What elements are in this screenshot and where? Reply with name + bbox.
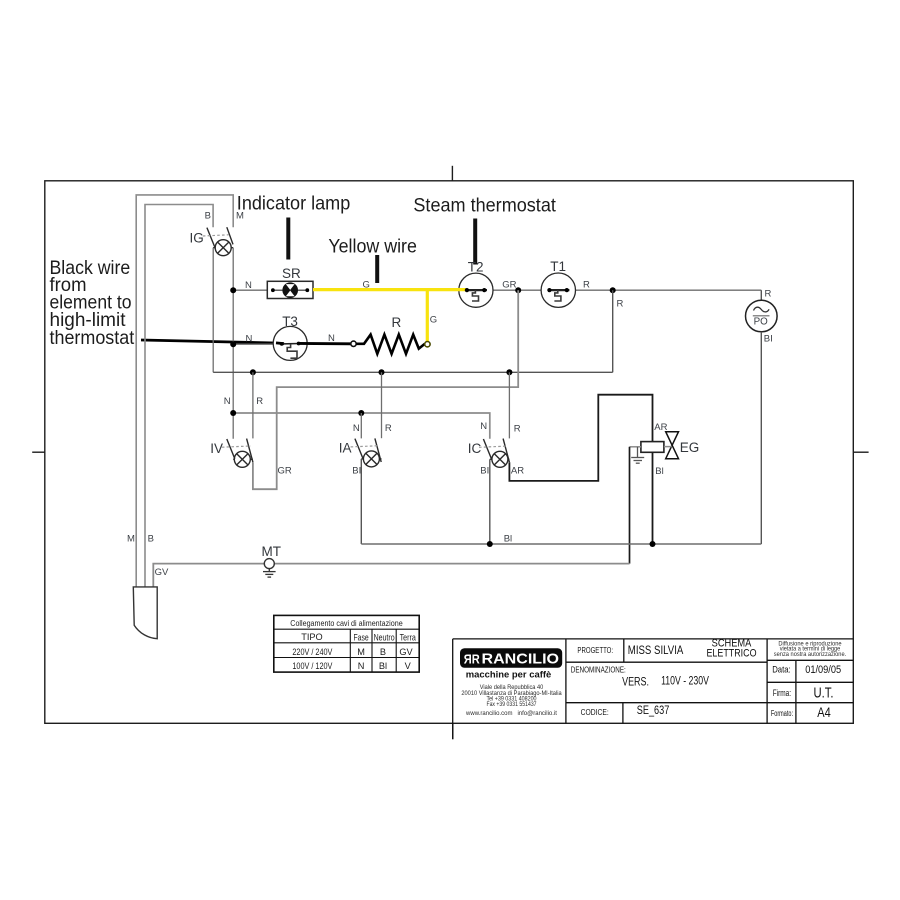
terminal: element left (open circle) <box>351 341 356 346</box>
svg-text:EG: EG <box>680 440 700 455</box>
svg-text:M: M <box>236 211 244 222</box>
wire: phase pole below IG down to lower feed row <box>212 248 214 373</box>
svg-text:N: N <box>358 661 365 671</box>
svg-text:A4: A4 <box>817 705 831 720</box>
annotation pointer to T2 <box>473 219 477 265</box>
svg-text:Fax +39 0331 551437: Fax +39 0331 551437 <box>486 701 536 708</box>
svg-text:SR: SR <box>282 266 301 281</box>
address lines <box>461 684 562 717</box>
annotation leader line: black wire from element to high-limit thermostat <box>141 340 276 343</box>
earth terminal MT <box>263 559 276 578</box>
ground symbol at EG coil <box>631 447 644 463</box>
svg-text:Collegamento cavi di alimentaz: Collegamento cavi di alimentazione <box>290 618 403 628</box>
svg-text:Terra: Terra <box>400 633 417 643</box>
node: N row / IA junction <box>358 410 364 416</box>
svg-text:SE_637: SE_637 <box>637 703 670 717</box>
wire: EG coil ground lead <box>630 446 641 448</box>
svg-text:T3: T3 <box>282 314 298 329</box>
supply cable table <box>274 615 419 672</box>
thermostat T1 (coffee) <box>541 273 575 307</box>
svg-text:VERS.: VERS. <box>622 674 649 688</box>
wire: IV R pin from feed row <box>252 372 254 438</box>
svg-text:M: M <box>357 647 365 657</box>
node: BI row / EG junction <box>650 541 656 547</box>
node: N / T3 junction <box>230 341 236 347</box>
svg-text:GV: GV <box>155 567 169 578</box>
svg-text:R: R <box>514 424 521 435</box>
svg-text:M: M <box>127 534 135 545</box>
svg-text:Yellow wire: Yellow wire <box>328 236 417 258</box>
drawing frame border (not labeled content) <box>32 166 868 739</box>
annotation pointer to yellow wire <box>375 255 379 283</box>
svg-text:BI: BI <box>764 334 773 345</box>
wire: N feed to SR <box>233 289 268 291</box>
terminal: element right (yellow wire end, open circle) <box>425 342 430 347</box>
svg-text:Bl: Bl <box>655 466 663 477</box>
svg-text:R: R <box>392 315 402 330</box>
svg-text:GR: GR <box>278 465 292 476</box>
node: T1out / pump-row junction <box>610 287 616 293</box>
wire: grey GR loop T2 to IV lamp <box>253 290 518 489</box>
wire: IA lamp down to BI row <box>360 459 362 544</box>
svg-text:100V / 120V: 100V / 120V <box>292 661 333 671</box>
wire: N pole below IG down to IV <box>232 248 234 439</box>
svg-text:GR: GR <box>502 279 516 290</box>
wire: mains M loop top (outer) <box>136 195 233 587</box>
T1 contact bar, pins and bimetal glyph <box>548 290 569 301</box>
wire: thick black T3 to element terminal <box>298 342 352 345</box>
title block <box>453 639 854 739</box>
annotation text: Black wire from element to high-limit thermostat <box>50 257 135 349</box>
svg-text:Bl: Bl <box>379 661 387 671</box>
svg-text:B: B <box>380 647 386 657</box>
wire: main row from T2 to PO (grey, behind thermostat circles) <box>464 289 761 291</box>
svg-text:GV: GV <box>399 647 413 657</box>
svg-text:AR: AR <box>511 465 524 476</box>
wire: PO down to BI row <box>760 332 762 544</box>
svg-text:Data:: Data: <box>772 665 791 675</box>
svg-text:PROGETTO:: PROGETTO: <box>577 646 613 655</box>
svg-text:R: R <box>617 299 624 310</box>
svg-text:BI: BI <box>480 465 489 476</box>
svg-text:Firma:: Firma: <box>773 688 791 698</box>
svg-text:T2: T2 <box>468 260 484 275</box>
svg-text:Steam thermostat: Steam thermostat <box>413 195 556 217</box>
svg-text:DENOMINAZIONE:: DENOMINAZIONE: <box>571 666 626 675</box>
wire: yellow wire SR to T2 with branch to element <box>313 290 466 342</box>
svg-text:Fase: Fase <box>354 633 369 643</box>
svg-text:N: N <box>224 396 231 407</box>
node: lower feed / IC R junction <box>506 369 512 375</box>
svg-text:ЯR: ЯR <box>464 652 480 667</box>
svg-text:www.rancilio.com info@rancil: www.rancilio.com info@rancilio.it <box>465 710 557 717</box>
wire: N down-feed to T3 (thin, under thick black) <box>233 343 278 345</box>
svg-text:PO: PO <box>754 316 769 327</box>
node: N row / IV junction <box>230 410 236 416</box>
svg-text:R: R <box>583 279 590 290</box>
svg-text:N: N <box>328 333 335 344</box>
diffusione notice <box>774 641 847 658</box>
svg-text:G: G <box>363 280 370 291</box>
svg-text:R: R <box>765 289 772 300</box>
svg-text:macchine per caffè: macchine per caffè <box>466 669 552 679</box>
svg-text:R: R <box>256 396 263 407</box>
svg-text:Indicator lamp: Indicator lamp <box>237 192 351 214</box>
wire: pump feed corner down to PO <box>760 290 762 300</box>
svg-text:N: N <box>245 280 252 291</box>
wire: IC lamp down to BI row <box>489 459 491 544</box>
wire: lower feed row (phase R) <box>213 371 613 373</box>
svg-text:220V / 240V: 220V / 240V <box>292 647 333 657</box>
svg-text:N: N <box>246 334 253 345</box>
svg-text:IC: IC <box>468 441 482 456</box>
wire: ground link EG to MT row <box>629 447 631 564</box>
svg-text:thermostat: thermostat <box>50 327 135 349</box>
svg-text:T1: T1 <box>550 259 566 274</box>
node: lower feed / IA R junction <box>379 369 385 375</box>
switch IC (coffee switch with lamp) <box>479 439 509 468</box>
annotation pointer to SR <box>286 218 290 260</box>
svg-text:MT: MT <box>262 544 282 559</box>
svg-text:TIPO: TIPO <box>301 632 322 642</box>
wire: IA R pin from feed row <box>381 372 383 438</box>
T2 contact bar, pins and bimetal glyph <box>466 290 487 301</box>
switch IV (steam switch with lamp) <box>222 439 253 468</box>
svg-text:B: B <box>205 211 211 222</box>
node: BI row / IC junction <box>487 541 493 547</box>
svg-text:V: V <box>405 661 412 671</box>
wire: coil to valve <box>664 446 672 448</box>
node: N / SR junction <box>230 287 236 293</box>
svg-text:BI: BI <box>352 465 361 476</box>
svg-text:IG: IG <box>190 231 204 246</box>
wire: earth GV row to MT and EG <box>153 564 629 587</box>
wire: junction down to lower feed row <box>612 290 614 372</box>
wire: mains B loop top (inner) <box>145 205 213 587</box>
switch IG (main switch, double pole with lamp) <box>203 227 233 256</box>
wire: AR orange wire IC to EG coil <box>509 395 652 481</box>
solenoid valve EG: valve body <box>666 432 679 459</box>
svg-text:IA: IA <box>339 441 352 456</box>
svg-text:RANCILIO: RANCILIO <box>482 652 560 668</box>
svg-text:ELETTRICO: ELETTRICO <box>706 648 756 660</box>
svg-text:01/09/05: 01/09/05 <box>805 664 841 676</box>
svg-text:Bl: Bl <box>504 533 512 544</box>
lamp SR (boiler element indicator) <box>267 281 313 298</box>
thermostat T2 (steam) <box>459 273 493 307</box>
resistor R (heating element) <box>356 335 424 354</box>
svg-text:R: R <box>385 423 392 434</box>
svg-text:Neutro: Neutro <box>374 633 395 643</box>
svg-text:IV: IV <box>210 441 223 456</box>
thermostat T3 (safety high-limit) <box>273 326 307 360</box>
solenoid valve EG: coil <box>641 442 664 453</box>
wire: N row to switches <box>233 413 490 439</box>
svg-text:110V - 230V: 110V - 230V <box>661 674 709 688</box>
svg-text:U.T.: U.T. <box>814 685 834 701</box>
svg-text:G: G <box>430 315 437 326</box>
svg-text:CODICE:: CODICE: <box>581 708 609 717</box>
svg-text:MISS SILVIA: MISS SILVIA <box>628 643 684 657</box>
svg-text:B: B <box>148 534 154 545</box>
Rancilio logo <box>460 648 562 668</box>
svg-text:N: N <box>353 423 360 434</box>
node: T2out / grey wire junction <box>515 287 521 293</box>
mains plug <box>133 587 157 639</box>
wire: IA N pin <box>360 413 362 438</box>
wire: BI neutral return row <box>361 543 761 545</box>
wire: EG coil down to BI row <box>652 452 654 544</box>
switch IA (hot water switch with lamp) <box>351 438 382 467</box>
pump PO <box>746 300 778 332</box>
node: lower feed / IV R junction <box>250 369 256 375</box>
svg-text:senza nostra autorizzazione.: senza nostra autorizzazione. <box>774 652 847 658</box>
wire: IC R pin from feed row <box>508 372 510 438</box>
svg-text:Formato:: Formato: <box>771 709 793 718</box>
svg-text:N: N <box>480 421 487 432</box>
